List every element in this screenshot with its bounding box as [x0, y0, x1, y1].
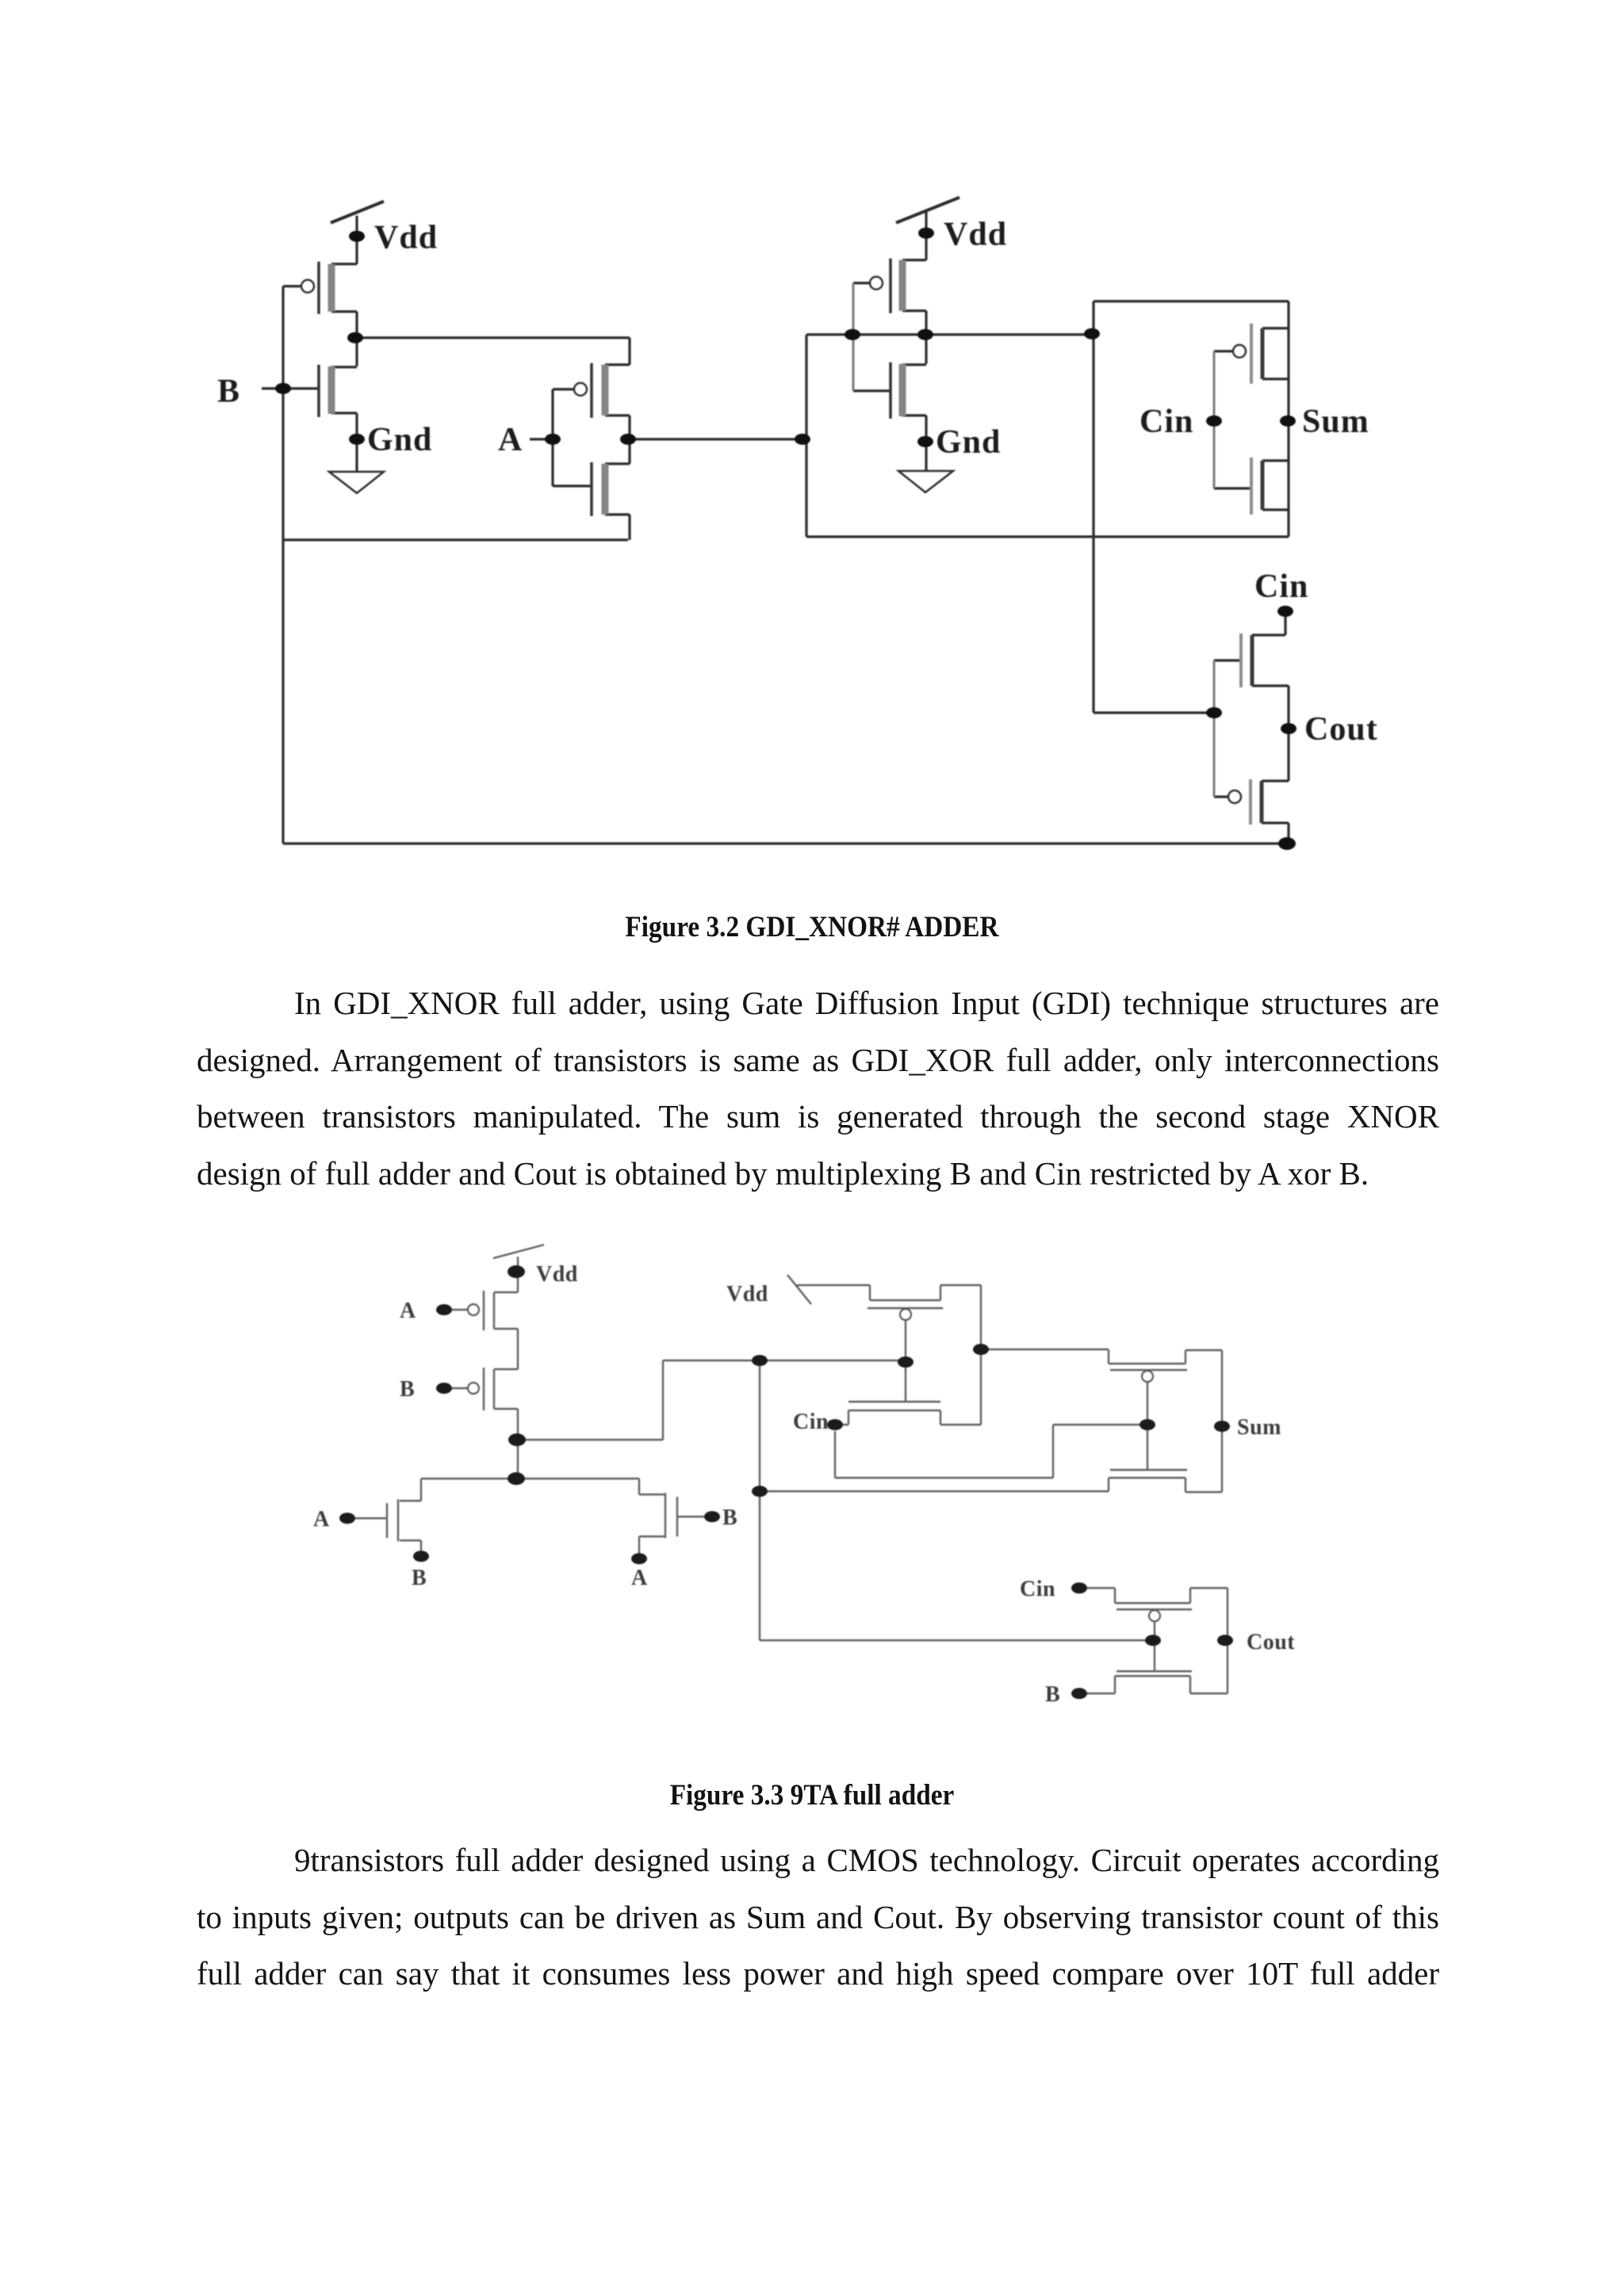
- svg-text:A: A: [400, 1299, 416, 1323]
- svg-text:Cin: Cin: [1254, 568, 1308, 605]
- svg-text:A: A: [313, 1507, 330, 1532]
- svg-text:B: B: [217, 373, 240, 410]
- svg-text:B: B: [400, 1377, 415, 1402]
- svg-text:Vdd: Vdd: [536, 1262, 578, 1287]
- svg-text:Gnd: Gnd: [367, 422, 432, 458]
- svg-text:Vdd: Vdd: [944, 216, 1007, 253]
- svg-text:A: A: [631, 1566, 648, 1590]
- svg-text:Cout: Cout: [1304, 711, 1378, 748]
- svg-text:Cin: Cin: [1020, 1577, 1055, 1601]
- svg-text:A: A: [498, 422, 523, 458]
- svg-text:Cout: Cout: [1247, 1630, 1295, 1655]
- svg-text:Vdd: Vdd: [726, 1282, 768, 1307]
- svg-text:Cin: Cin: [793, 1410, 829, 1434]
- svg-text:B: B: [412, 1566, 427, 1590]
- svg-text:Gnd: Gnd: [936, 424, 1001, 461]
- svg-text:Cin: Cin: [1139, 404, 1193, 440]
- svg-text:Vdd: Vdd: [374, 220, 438, 256]
- svg-text:Sum: Sum: [1237, 1415, 1281, 1440]
- svg-text:B: B: [1045, 1682, 1060, 1707]
- svg-text:Sum: Sum: [1302, 404, 1369, 440]
- svg-text:B: B: [722, 1506, 737, 1530]
